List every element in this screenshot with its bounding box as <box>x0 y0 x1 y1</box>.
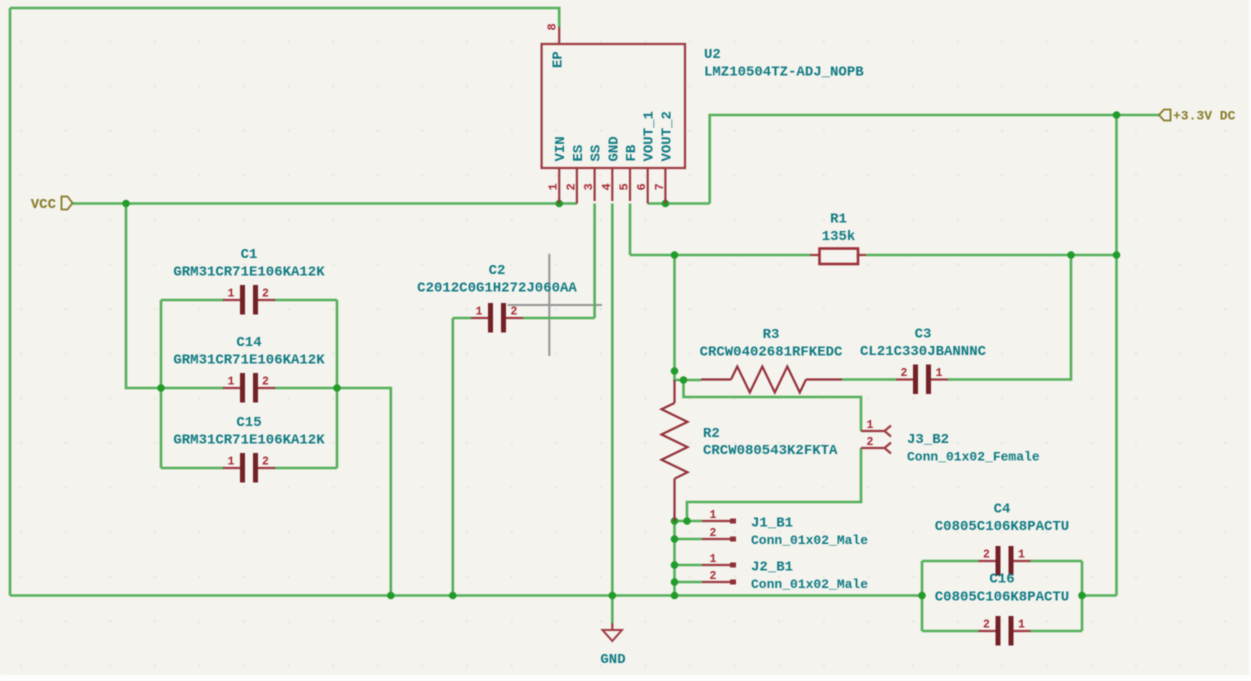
svg-text:1: 1 <box>228 288 235 301</box>
capacitor C16 <box>935 572 1069 646</box>
svg-text:C4: C4 <box>994 502 1011 518</box>
svg-text:2: 2 <box>867 436 874 449</box>
svg-text:CL21C330JBANNNC: CL21C330JBANNNC <box>860 344 987 360</box>
svg-text:1: 1 <box>710 509 717 522</box>
U2 pin 1 stub <box>558 168 560 204</box>
svg-text:VOUT_1: VOUT_1 <box>642 111 658 161</box>
U2 pin 7 stub <box>664 168 666 204</box>
wire C1-C14-C15 right rail <box>336 300 339 468</box>
svg-text:GRM31CR71E106KA12K: GRM31CR71E106KA12K <box>173 353 325 369</box>
svg-text:2: 2 <box>710 570 717 583</box>
svg-text:R3: R3 <box>763 327 780 343</box>
svg-text:2: 2 <box>262 288 269 301</box>
svg-text:+3.3V DC: +3.3V DC <box>1173 109 1236 124</box>
svg-text:Conn_01x02_Male: Conn_01x02_Male <box>751 577 868 592</box>
svg-text:VIN: VIN <box>553 136 569 161</box>
svg-text:4: 4 <box>600 183 614 190</box>
U2 pin names <box>551 51 676 161</box>
wire C4 row left <box>922 560 979 563</box>
svg-text:C2: C2 <box>489 263 506 279</box>
svg-text:GRM31CR71E106KA12K: GRM31CR71E106KA12K <box>173 265 325 281</box>
svg-text:Conn_01x02_Female: Conn_01x02_Female <box>907 450 1040 465</box>
global label +3.3V DC <box>1159 109 1236 124</box>
wire J1 pin1 stub <box>675 520 703 523</box>
svg-text:1: 1 <box>547 183 561 190</box>
svg-text:2: 2 <box>511 306 518 319</box>
wire R2 bottom vertical to rail <box>673 521 676 596</box>
svg-text:C15: C15 <box>236 415 261 431</box>
wire C14 row right <box>274 387 337 390</box>
svg-text:C0805C106K8PACTU: C0805C106K8PACTU <box>935 519 1069 535</box>
svg-text:2: 2 <box>262 376 269 389</box>
svg-text:J2_B1: J2_B1 <box>751 560 793 576</box>
wire C4 box right to +3.3V vertical <box>1082 594 1117 597</box>
connector J2_B1 <box>702 553 868 592</box>
wire VCC junction down to C14 row <box>126 204 161 389</box>
wire divider node to J3 pin1 <box>684 380 862 431</box>
wire left border vertical <box>9 8 12 596</box>
svg-text:LMZ10504TZ-ADJ_NOPB: LMZ10504TZ-ADJ_NOPB <box>704 65 864 81</box>
svg-text:C14: C14 <box>236 335 261 351</box>
wire U2 pin4 GND down to ground symbol <box>611 204 614 624</box>
ground symbol <box>600 623 625 668</box>
wire C2 row right <box>523 317 595 320</box>
wire C14 row left <box>161 387 224 390</box>
svg-text:ES: ES <box>571 145 587 162</box>
U2 pin 5 stub <box>629 168 631 201</box>
svg-text:FB: FB <box>624 144 640 161</box>
wire VCC to U2 pin1 pin2 <box>73 202 577 205</box>
U2 pin 8 EP stub <box>558 27 560 44</box>
svg-text:6: 6 <box>635 183 649 190</box>
svg-text:1: 1 <box>476 306 483 319</box>
capacitor C15 <box>173 415 325 483</box>
svg-text:1: 1 <box>1018 619 1025 632</box>
U2 reference labels <box>704 47 864 81</box>
wire top rail EP to left border <box>10 8 559 27</box>
wire C16 row left <box>922 630 979 633</box>
svg-text:SS: SS <box>589 145 605 162</box>
svg-text:R2: R2 <box>703 426 720 442</box>
svg-text:VOUT_2: VOUT_2 <box>659 111 675 161</box>
wire U2 pin3 SS down to C2 <box>593 204 596 319</box>
wire C3 row from R3 <box>842 378 896 381</box>
op IC U2 body <box>542 44 685 168</box>
connector J3_B2 <box>861 419 1040 465</box>
global label VCC <box>31 197 73 214</box>
svg-text:1: 1 <box>936 367 943 380</box>
wire C1-C14-C15 left rail <box>160 300 163 468</box>
wire FB node row to R1 <box>630 254 810 257</box>
svg-text:U2: U2 <box>704 47 721 63</box>
svg-text:GRM31CR71E106KA12K: GRM31CR71E106KA12K <box>173 433 325 449</box>
resistor R2 <box>662 380 839 521</box>
svg-text:135k: 135k <box>822 229 856 245</box>
svg-text:CRCW0402681RFKEDC: CRCW0402681RFKEDC <box>700 345 843 361</box>
wire R1 right to +3.3V vertical <box>866 254 1117 257</box>
wire C4-C16 box left vertical <box>921 561 924 631</box>
wire J1 pin2 stub <box>675 538 703 541</box>
svg-text:3: 3 <box>582 183 596 190</box>
U2 pin 3 stub <box>593 168 595 201</box>
svg-text:2: 2 <box>983 619 990 632</box>
svg-text:1: 1 <box>710 553 717 566</box>
svg-text:C3: C3 <box>915 327 932 343</box>
svg-text:C2012C0G1H272J060AA: C2012C0G1H272J060AA <box>417 281 577 297</box>
cursor crosshair <box>508 254 602 356</box>
svg-text:C0805C106K8PACTU: C0805C106K8PACTU <box>935 590 1069 606</box>
svg-text:GND: GND <box>600 652 625 668</box>
svg-text:C1: C1 <box>241 247 258 263</box>
svg-text:2: 2 <box>262 456 269 469</box>
wire J2 pin1 stub <box>675 564 703 567</box>
U2 pin 2 stub <box>576 168 578 204</box>
wire C4-C16 box right vertical <box>1081 561 1084 631</box>
svg-text:Conn_01x02_Male: Conn_01x02_Male <box>751 533 868 548</box>
U2 pin numbers <box>546 23 667 190</box>
wire C15 row left <box>161 467 224 470</box>
wire FB divider vertical <box>675 255 702 380</box>
capacitor C3 <box>860 327 987 395</box>
wire C1 row right <box>274 299 337 302</box>
wire U2 pin5 FB down to R1 row <box>629 204 632 256</box>
wire C15 row right <box>274 467 337 470</box>
wire C16 row right <box>1030 630 1082 633</box>
wire C2 left lead down to bottom rail <box>451 318 454 596</box>
svg-text:2: 2 <box>983 549 990 562</box>
svg-text:J3_B2: J3_B2 <box>907 432 949 448</box>
svg-text:EP: EP <box>551 51 567 68</box>
wire C2 row left <box>453 317 472 320</box>
wire VOUT up and right to +3.3V label <box>710 115 1159 204</box>
svg-text:CRCW080543K2FKTA: CRCW080543K2FKTA <box>703 443 838 459</box>
svg-text:C16: C16 <box>989 572 1014 588</box>
wire J3 pin2 down and left to J1 node <box>687 448 861 521</box>
wire J2 pin2 stub <box>675 581 703 584</box>
svg-text:1: 1 <box>867 419 874 432</box>
svg-text:1: 1 <box>228 456 235 469</box>
svg-text:2: 2 <box>901 367 908 380</box>
svg-text:R1: R1 <box>830 212 847 228</box>
svg-text:7: 7 <box>653 183 667 190</box>
svg-text:1: 1 <box>1018 549 1025 562</box>
capacitor C2 <box>417 263 577 333</box>
wire C14 right to bottom rail <box>337 388 391 596</box>
window edge strips <box>0 675 1251 681</box>
connector J1_B1 <box>702 509 868 548</box>
wire +3.3V right vertical <box>1115 115 1118 596</box>
svg-text:2: 2 <box>564 183 578 190</box>
wire C3 right up to R1 row <box>948 255 1071 380</box>
svg-text:8: 8 <box>546 23 560 30</box>
resistor R3 <box>700 327 843 393</box>
U2 pin 6 stub <box>647 168 649 204</box>
capacitor C14 <box>173 335 325 403</box>
wire C1 row left <box>161 299 224 302</box>
svg-text:J1_B1: J1_B1 <box>751 516 793 532</box>
U2 pin 4 stub <box>611 168 613 201</box>
svg-text:VCC: VCC <box>31 197 57 213</box>
svg-text:5: 5 <box>618 183 632 190</box>
svg-text:GND: GND <box>606 136 622 161</box>
wire U2 pin6 pin7 VOUT tie <box>648 202 710 205</box>
capacitor C4 <box>935 502 1069 576</box>
wire bottom GND rail <box>10 594 922 597</box>
svg-text:1: 1 <box>228 376 235 389</box>
capacitor C1 <box>173 247 325 315</box>
svg-text:2: 2 <box>710 527 717 540</box>
resistor R1 <box>810 212 866 265</box>
wire C4 row right <box>1030 560 1082 563</box>
